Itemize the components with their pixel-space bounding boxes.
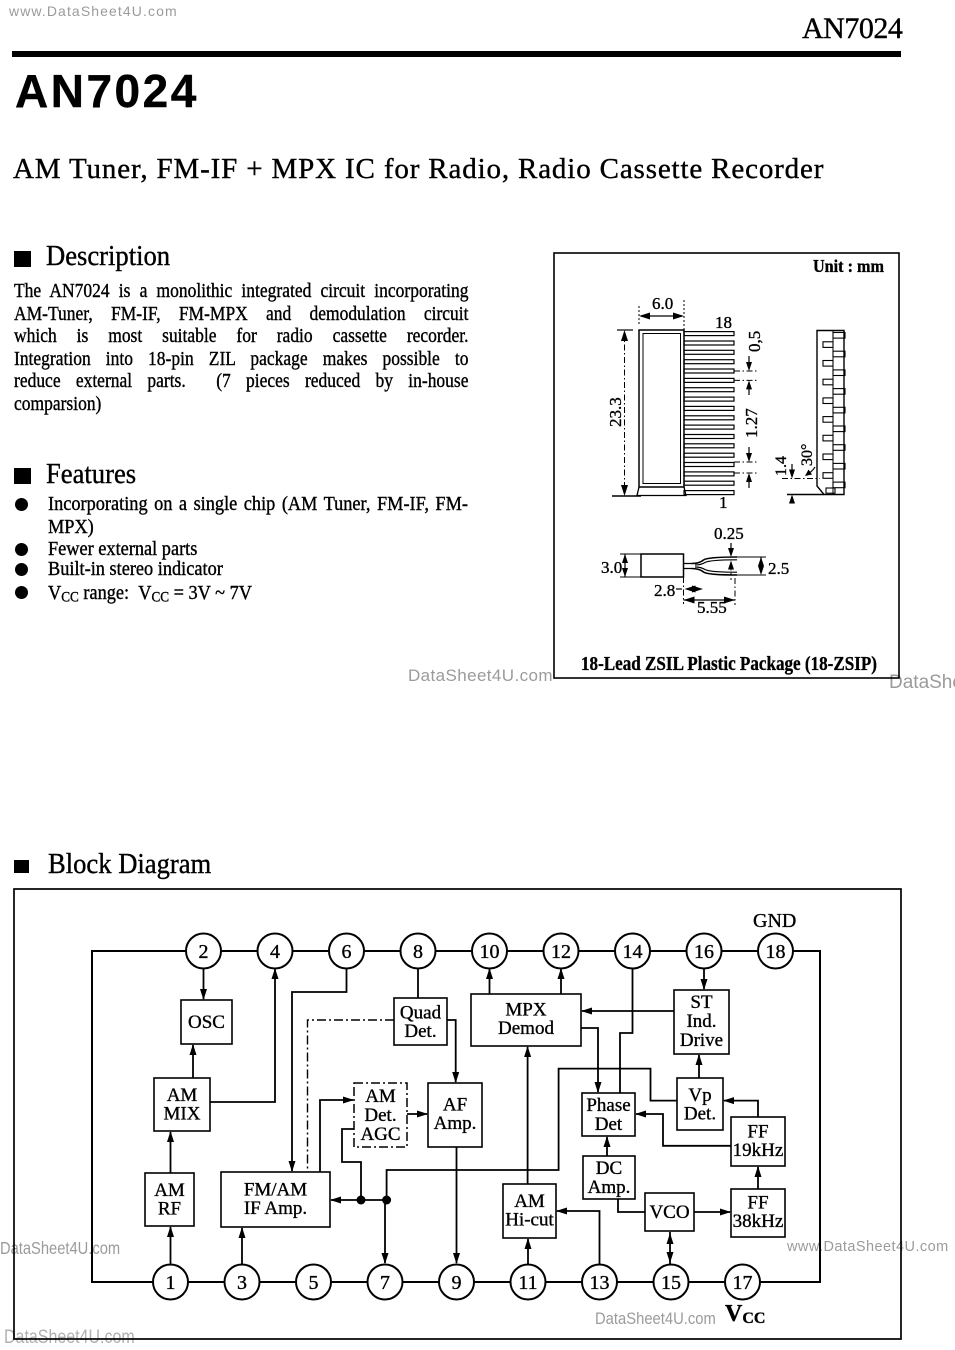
wire pin11 to AM hi-cut xyxy=(525,1238,532,1264)
wire net to Vp det xyxy=(387,1069,677,1200)
svg-text:Phase: Phase xyxy=(586,1095,630,1116)
big title xyxy=(15,68,199,114)
block FM/AM IF Amp xyxy=(221,1172,330,1227)
dim 3.0 xyxy=(601,554,641,577)
pin 5 xyxy=(296,1265,331,1300)
svg-text:0,5: 0,5 xyxy=(745,331,764,352)
wire FF38k to FF19k xyxy=(755,1166,762,1189)
wire DC amp to VCO xyxy=(618,1199,645,1212)
dim 30deg xyxy=(799,444,816,476)
svg-text:12: 12 xyxy=(551,941,571,963)
dim 23.3 xyxy=(606,330,641,496)
pin 14 xyxy=(615,934,650,969)
wire AM hi-cut to MPX demod xyxy=(524,1046,531,1184)
dim 0.25 xyxy=(714,524,744,580)
package body side view xyxy=(817,331,844,495)
pin 17 xyxy=(725,1265,760,1300)
wire pin2 to OSC xyxy=(200,968,207,1000)
wire quad det to IF amp dash-dot xyxy=(308,1020,395,1172)
svg-text:Det.: Det. xyxy=(684,1104,716,1125)
svg-text:1.27: 1.27 xyxy=(742,408,761,438)
svg-text:1: 1 xyxy=(166,1272,176,1294)
watermark near package bottom xyxy=(408,667,553,684)
svg-text:16: 16 xyxy=(694,941,714,963)
svg-text:Amp.: Amp. xyxy=(588,1177,631,1198)
pin bus loop xyxy=(92,951,820,1282)
svg-text:18: 18 xyxy=(715,313,732,332)
wire pin6 to IF amp xyxy=(289,968,347,1172)
block AM MIX xyxy=(154,1078,210,1131)
svg-text:1: 1 xyxy=(719,493,728,512)
svg-text:GND: GND xyxy=(753,910,796,932)
lead section body xyxy=(641,554,684,577)
watermarks lower xyxy=(0,1240,120,1258)
wire ST ind drive to MPX demod xyxy=(581,1008,674,1015)
svg-text:5: 5 xyxy=(309,1272,319,1294)
pin 4 xyxy=(258,934,293,969)
svg-text:Det: Det xyxy=(595,1114,623,1135)
block Phase Det xyxy=(582,1093,635,1136)
svg-text:18-Lead ZSIL Plastic Package (: 18-Lead ZSIL Plastic Package (18-ZSIP) xyxy=(581,654,877,675)
svg-text:1.4: 1.4 xyxy=(773,456,790,476)
svg-text:Demod: Demod xyxy=(498,1018,554,1039)
Description paragraph xyxy=(14,281,468,301)
svg-text:VCO: VCO xyxy=(649,1202,689,1223)
block OSC xyxy=(181,1000,232,1044)
block FF 19kHz xyxy=(731,1117,785,1166)
svg-text:2.8: 2.8 xyxy=(654,581,675,600)
wire DC amp to phase det xyxy=(604,1136,611,1156)
svg-text:Det.: Det. xyxy=(364,1105,396,1126)
pin 18 xyxy=(758,934,793,969)
svg-text:11: 11 xyxy=(518,1272,537,1294)
dim 1.27 xyxy=(734,408,761,488)
Features heading xyxy=(14,468,31,484)
side view lead stubs column A xyxy=(823,342,835,493)
block AM RF xyxy=(145,1173,194,1226)
svg-text:RF: RF xyxy=(158,1199,181,1220)
Description heading xyxy=(14,251,31,267)
pin 16 xyxy=(687,934,722,969)
svg-text:6.0: 6.0 xyxy=(652,294,673,313)
svg-text:2: 2 xyxy=(199,941,209,963)
pin 13 xyxy=(582,1265,617,1300)
pin 12 xyxy=(544,934,579,969)
pin 10 xyxy=(472,934,507,969)
block Quad Det xyxy=(394,998,447,1045)
dim 1.4 xyxy=(773,456,824,504)
wire MPX demod to pin12 xyxy=(558,968,565,994)
svg-text:14: 14 xyxy=(623,941,643,963)
feature bullets xyxy=(15,498,28,511)
side view lead stubs column B xyxy=(833,333,845,488)
svg-text:8: 8 xyxy=(413,941,423,963)
svg-text:Drive: Drive xyxy=(680,1030,723,1051)
svg-text:Unit : mm: Unit : mm xyxy=(813,256,884,276)
lead fork xyxy=(692,557,738,575)
wire AGC line to IF amp xyxy=(330,1197,387,1204)
wire Vp det to ST ind drive xyxy=(696,1054,703,1078)
wire IF amp to AGC xyxy=(320,1097,354,1173)
svg-text:Amp.: Amp. xyxy=(434,1113,477,1134)
wire MPX demod to phase det xyxy=(581,1028,602,1093)
svg-text:3.0: 3.0 xyxy=(601,558,622,577)
dim 2.8 xyxy=(654,577,703,604)
block VCO xyxy=(645,1193,694,1231)
svg-text:OSC: OSC xyxy=(188,1012,225,1033)
wire AM det AGC to AF amp xyxy=(407,1111,428,1118)
pin 8 xyxy=(401,934,436,969)
svg-text:Det.: Det. xyxy=(404,1021,436,1042)
block AM Hi-cut xyxy=(503,1184,556,1238)
svg-text:19kHz: 19kHz xyxy=(733,1140,784,1161)
svg-text:ST: ST xyxy=(690,992,713,1013)
svg-text:18: 18 xyxy=(766,941,786,963)
wire pin1 to AM RF xyxy=(167,1226,174,1264)
pin 11 xyxy=(511,1265,546,1300)
wire VCO to FF38k xyxy=(694,1209,731,1216)
pin 2 xyxy=(186,934,221,969)
block Vp Det xyxy=(677,1078,723,1130)
junction node B xyxy=(382,1196,391,1205)
svg-text:Ind.: Ind. xyxy=(686,1011,716,1032)
package box frame xyxy=(554,253,899,678)
dim 0,5 xyxy=(734,331,764,395)
pin 9 xyxy=(439,1265,474,1300)
wire AM RF to AM MIX xyxy=(167,1131,174,1173)
package body front view xyxy=(637,330,686,496)
wire pin13 to AM hi-cut xyxy=(556,1208,600,1265)
Block Diagram heading xyxy=(14,860,29,873)
block AM Det AGC xyxy=(354,1083,407,1147)
dim 6.0 xyxy=(639,294,684,340)
wire pin8 to quad det xyxy=(417,968,419,998)
wire pin16 to ST ind drive xyxy=(701,968,708,990)
lead neck xyxy=(684,564,692,569)
header part number xyxy=(802,14,902,44)
wire pin14 to phase det xyxy=(620,968,633,1093)
block DC Amp xyxy=(583,1156,635,1199)
block FF 38kHz xyxy=(731,1189,785,1237)
pin 7 xyxy=(368,1265,403,1300)
wire AM MIX to OSC xyxy=(190,1044,197,1078)
pin 15 xyxy=(654,1265,689,1300)
svg-text:30°: 30° xyxy=(799,444,816,466)
svg-text:AM: AM xyxy=(365,1086,396,1107)
svg-text:7: 7 xyxy=(380,1272,390,1294)
svg-text:3: 3 xyxy=(237,1272,247,1294)
pin 6 xyxy=(329,934,364,969)
svg-text:4: 4 xyxy=(270,941,280,963)
diagram outer frame xyxy=(14,889,901,1339)
leads front view xyxy=(684,332,734,495)
block AF Amp xyxy=(428,1083,482,1147)
watermark top-left xyxy=(9,4,178,18)
svg-text:IF Amp.: IF Amp. xyxy=(244,1198,307,1219)
svg-text:38kHz: 38kHz xyxy=(733,1211,784,1232)
header rule xyxy=(12,51,901,57)
junction node A xyxy=(357,1196,366,1205)
svg-text:5.55: 5.55 xyxy=(697,598,727,617)
subtitle xyxy=(13,155,824,184)
svg-text:0.25: 0.25 xyxy=(714,524,744,543)
dim 5.55 xyxy=(684,578,736,617)
svg-text:23.3: 23.3 xyxy=(606,397,625,427)
svg-text:17: 17 xyxy=(733,1272,753,1294)
svg-text:DC: DC xyxy=(596,1158,622,1179)
block diagram xyxy=(0,880,955,1350)
block ST Ind Drive xyxy=(674,990,729,1054)
wire MPX demod to pin10 xyxy=(486,968,493,994)
block MPX Demod xyxy=(471,994,581,1046)
wire AGC feedback loop xyxy=(342,1129,361,1200)
wire AM MIX to pin4 xyxy=(210,968,279,1102)
wire quad det to AF amp xyxy=(447,1020,459,1083)
wire FF19k to phase det xyxy=(635,1111,731,1146)
svg-text:VCC: VCC xyxy=(725,1301,765,1327)
dim 2.5 xyxy=(737,557,789,578)
wire VCO to pin15 bidirectional xyxy=(667,1232,674,1264)
svg-text:MIX: MIX xyxy=(164,1104,201,1125)
pin 1 xyxy=(153,1265,188,1300)
svg-text:Hi-cut: Hi-cut xyxy=(505,1210,554,1231)
wire pin3 to IF amp xyxy=(239,1227,246,1264)
svg-text:9: 9 xyxy=(452,1272,462,1294)
svg-text:AGC: AGC xyxy=(360,1124,400,1145)
svg-text:6: 6 xyxy=(342,941,352,963)
wire FF19k to Vp det xyxy=(723,1097,758,1117)
wire junction to pin7 xyxy=(382,1200,389,1264)
svg-text:2.5: 2.5 xyxy=(768,559,789,578)
svg-text:13: 13 xyxy=(590,1272,610,1294)
pin 3 xyxy=(225,1265,260,1300)
svg-text:15: 15 xyxy=(661,1272,681,1294)
svg-text:10: 10 xyxy=(480,941,500,963)
package drawing xyxy=(553,252,900,679)
wire AF amp to pin9 xyxy=(453,1147,460,1264)
